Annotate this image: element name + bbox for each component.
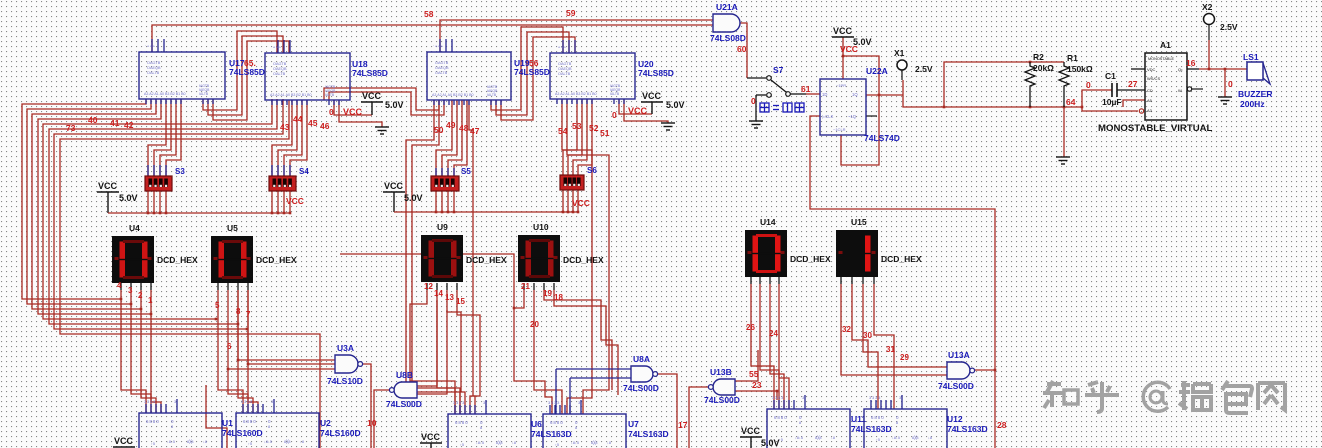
svg-text:U10: U10 xyxy=(533,222,549,232)
U8A output xyxy=(656,374,677,448)
svg-text:29: 29 xyxy=(900,353,909,362)
svg-text:↑5: ↑5 xyxy=(555,443,559,447)
svg-text:↑5: ↑5 xyxy=(460,443,464,447)
svg-text:0: 0 xyxy=(612,110,617,120)
svg-text:1Q: 1Q xyxy=(852,92,858,97)
svg-text:VCC: VCC xyxy=(840,44,858,54)
svg-text:DCD_HEX: DCD_HEX xyxy=(256,255,297,265)
svg-text:U15: U15 xyxy=(851,217,867,227)
svg-text:150kΩ: 150kΩ xyxy=(1067,64,1093,74)
svg-text:42: 42 xyxy=(124,120,134,130)
svg-text:VCC: VCC xyxy=(833,26,853,36)
svg-text:74LS00D: 74LS00D xyxy=(386,399,422,409)
svg-text:8: 8 xyxy=(236,307,241,316)
probe X1 xyxy=(897,60,907,70)
svg-text:VCC: VCC xyxy=(572,198,590,208)
VCC symbol near U20 xyxy=(641,91,685,110)
U13A output xyxy=(973,369,995,371)
svg-text:· ▵ ▵ ▵: · ▵ ▵ ▵ xyxy=(271,44,281,49)
resistor R1 150k xyxy=(1059,62,1069,107)
svg-text:28: 28 xyxy=(997,420,1007,430)
svg-text:74LS163D: 74LS163D xyxy=(531,429,572,439)
svg-text:MONOSTABLE: MONOSTABLE xyxy=(1148,57,1175,61)
svg-text:LS1: LS1 xyxy=(1243,52,1259,62)
svg-text:WS/CS: WS/CS xyxy=(1147,76,1160,81)
wire VCC to S5/S6 xyxy=(393,192,395,212)
svg-text:8╳8: 8╳8 xyxy=(591,440,598,445)
svg-text:17: 17 xyxy=(678,420,688,430)
svg-text:S5: S5 xyxy=(461,167,471,176)
counter U2 xyxy=(236,413,319,448)
svg-text:VCC: VCC xyxy=(741,426,761,436)
svg-text:58: 58 xyxy=(424,9,434,19)
svg-text:↓8: ↓8 xyxy=(203,440,207,444)
cross-section wires near U10 xyxy=(340,254,552,414)
DIP switch S5 xyxy=(431,176,459,191)
svg-text:18: 18 xyxy=(554,293,563,302)
svg-text:19: 19 xyxy=(543,289,552,298)
wire 58 (U19 to U21A upper input) xyxy=(440,20,713,52)
U18 VCC net wires xyxy=(334,100,372,115)
svg-text:BUZZER: BUZZER xyxy=(1238,89,1272,99)
VCC bottom mid xyxy=(420,432,442,443)
display U9 DCD_HEX xyxy=(421,235,463,282)
svg-text:A3: A3 xyxy=(1147,108,1153,113)
CLK wire from U22A to U13A column xyxy=(810,116,995,448)
svg-text:2: 2 xyxy=(138,291,143,300)
svg-text:↓8↓5: ↓8↓5 xyxy=(892,436,900,440)
svg-text:A3 A2 A1 A0 B3 B2 B1 B0: A3 A2 A1 A0 B3 B2 B1 B0 xyxy=(432,93,474,97)
U22A PR/CLR loop xyxy=(841,56,879,165)
display pin columns U9 to U6 xyxy=(410,290,455,414)
svg-text:U3A: U3A xyxy=(337,343,354,353)
svg-text:74LS00D: 74LS00D xyxy=(623,383,659,393)
U3A input wires from U5 columns xyxy=(238,290,335,360)
svg-text:53: 53 xyxy=(572,121,582,131)
monostable A1 xyxy=(1145,53,1187,120)
svg-text:↓8: ↓8 xyxy=(607,441,611,445)
svg-text:24: 24 xyxy=(769,329,778,338)
svg-text:8╳8: 8╳8 xyxy=(496,440,503,445)
comparator U17 74LS85D xyxy=(139,52,225,99)
svg-text:5.0V: 5.0V xyxy=(404,193,423,203)
svg-text:IALTB: IALTB xyxy=(487,93,497,97)
VCC symbol near U18 xyxy=(361,91,404,110)
svg-text:VDC: VDC xyxy=(1147,67,1156,72)
NAND gate U8A 74LS00D xyxy=(631,366,653,382)
svg-text:DCD_HEX: DCD_HEX xyxy=(157,255,198,265)
svg-text:U5: U5 xyxy=(227,223,238,233)
counter U6 xyxy=(448,414,531,448)
svg-text:X2: X2 xyxy=(1202,2,1213,12)
svg-text:43: 43 xyxy=(280,122,290,132)
svg-text:U9: U9 xyxy=(437,222,448,232)
svg-text:4: 4 xyxy=(117,281,122,290)
svg-text:U8B: U8B xyxy=(396,370,413,380)
comparator U19 74LS85D xyxy=(427,52,511,100)
ground near U20 xyxy=(661,123,675,130)
svg-text:45: 45 xyxy=(308,118,318,128)
svg-text:12: 12 xyxy=(424,282,433,291)
svg-text:↓8: ↓8 xyxy=(928,436,932,440)
svg-text:A5: A5 xyxy=(1147,98,1153,103)
svg-text:VCC: VCC xyxy=(421,432,441,442)
counter U12 xyxy=(864,409,947,448)
A1 output Q wire 16 xyxy=(1187,68,1199,70)
svg-text:VCC: VCC xyxy=(286,196,304,206)
cascade wires U18 to U19 xyxy=(324,88,439,110)
svg-text:↑5: ↑5 xyxy=(876,438,880,442)
svg-text:U1: U1 xyxy=(222,418,233,428)
svg-text:48: 48 xyxy=(459,123,469,133)
comparator U18 74LS85D xyxy=(265,53,350,100)
X2 stem xyxy=(1208,24,1210,40)
svg-text:0: 0 xyxy=(751,96,756,106)
svg-text:OAGTB: OAGTB xyxy=(435,61,449,65)
svg-text:200Hz: 200Hz xyxy=(1240,99,1265,109)
svg-text:3 3 3 3: 3 3 3 3 xyxy=(869,395,881,400)
U22A VCC wire xyxy=(842,37,844,79)
counter U1 xyxy=(139,413,222,448)
svg-text:5.0V: 5.0V xyxy=(666,100,685,110)
wires U18 B pins to S4 xyxy=(272,100,292,176)
svg-text:VCC: VCC xyxy=(114,436,134,446)
wires U19 pins to S5 xyxy=(436,100,452,176)
VCC for U22A xyxy=(832,26,872,47)
U8B wires xyxy=(374,390,391,448)
cascade wires U17 to U18 xyxy=(203,31,277,110)
NAND gate U13B 74LS00D xyxy=(713,379,735,395)
svg-text:40: 40 xyxy=(88,115,98,125)
svg-text:↓8: ↓8 xyxy=(512,441,516,445)
R1 to ground xyxy=(1063,107,1065,157)
svg-text:5.0V: 5.0V xyxy=(761,438,780,448)
svg-text:↓8: ↓8 xyxy=(300,440,304,444)
svg-text:5.0V: 5.0V xyxy=(385,100,404,110)
svg-text:64: 64 xyxy=(1066,97,1076,107)
svg-text:3 3 3 3: 3 3 3 3 xyxy=(144,399,156,404)
svg-text:74LS74D: 74LS74D xyxy=(864,133,900,143)
svg-text:R1: R1 xyxy=(1067,53,1078,63)
svg-text:55: 55 xyxy=(749,369,759,379)
wire 60 (U21A output down to S7) xyxy=(740,23,747,78)
U3A output wire 10 xyxy=(361,364,371,448)
svg-text:8╳8: 8╳8 xyxy=(284,439,291,444)
svg-text:~1Q: ~1Q xyxy=(848,114,857,119)
left wire bundle: U17/U18 pins to display/counter bus xyxy=(22,99,146,299)
svg-text:21: 21 xyxy=(521,282,530,291)
svg-text:16: 16 xyxy=(1186,58,1196,68)
svg-text:VCC: VCC xyxy=(343,107,363,117)
label key=space xyxy=(760,103,804,112)
svg-text:· ▵ ▵ ▵: · ▵ ▵ ▵ xyxy=(145,43,155,48)
node 64 wire xyxy=(903,95,1082,107)
svg-text:· ▵ ▵ ▵: · ▵ ▵ ▵ xyxy=(433,43,443,48)
svg-text:↑5: ↑5 xyxy=(779,438,783,442)
svg-text:DCD_HEX: DCD_HEX xyxy=(563,255,604,265)
svg-text:5.0V: 5.0V xyxy=(119,193,138,203)
svg-text:CD: CD xyxy=(1147,88,1153,93)
C1 wires xyxy=(1082,90,1112,107)
svg-text:W: W xyxy=(1178,88,1182,93)
svg-text:50: 50 xyxy=(434,125,444,135)
svg-text:47: 47 xyxy=(470,126,480,136)
svg-text:VCC: VCC xyxy=(384,181,404,191)
svg-text:74LS85D: 74LS85D xyxy=(229,67,265,77)
svg-text:~1CLR: ~1CLR xyxy=(833,127,846,132)
svg-text:20kΩ: 20kΩ xyxy=(1033,63,1054,73)
svg-text:OALTB: OALTB xyxy=(273,72,286,76)
svg-text:R2: R2 xyxy=(1033,52,1044,62)
svg-text:49: 49 xyxy=(446,120,456,130)
svg-text:~1PR: ~1PR xyxy=(836,83,846,88)
svg-text:27: 27 xyxy=(1128,79,1138,89)
svg-text:X1: X1 xyxy=(894,48,905,58)
svg-text:41: 41 xyxy=(110,118,120,128)
resistor R2 20k xyxy=(1025,62,1035,107)
display pin stubs xyxy=(120,283,122,290)
svg-text:52: 52 xyxy=(589,123,599,133)
DIP switch S6 xyxy=(560,175,584,190)
VCC symbol (S3 area) xyxy=(97,181,138,203)
svg-text:74LS163D: 74LS163D xyxy=(851,424,892,434)
svg-text:A1: A1 xyxy=(1160,40,1171,50)
ground under S7 xyxy=(749,121,763,128)
X1 stem xyxy=(901,70,903,80)
wires U20 pins to S6 xyxy=(563,99,577,175)
svg-text:IALTB: IALTB xyxy=(610,92,620,96)
svg-text:DCD_HEX: DCD_HEX xyxy=(881,254,922,264)
svg-text:74LS163D: 74LS163D xyxy=(628,429,669,439)
svg-text:6 8 8 0: 6 8 8 0 xyxy=(146,419,159,424)
svg-text:U7: U7 xyxy=(628,419,639,429)
svg-text:A3 A2 A1 A0 B3 B2 B1 B0: A3 A2 A1 A0 B3 B2 B1 B0 xyxy=(270,93,312,97)
wire VCC to S3/S4 xyxy=(107,192,109,213)
display pin columns U14 to U11 xyxy=(751,284,774,409)
svg-text:74LS85D: 74LS85D xyxy=(638,68,674,78)
svg-text:3 3 3 3: 3 3 3 3 xyxy=(772,395,784,400)
svg-text:↓8↓5: ↓8↓5 xyxy=(264,440,272,444)
svg-text:S4: S4 xyxy=(299,167,309,176)
svg-text:74LS160D: 74LS160D xyxy=(320,428,361,438)
NAND gate U8B 74LS00D xyxy=(394,382,417,398)
svg-text:S3: S3 xyxy=(175,167,185,176)
svg-text:30: 30 xyxy=(863,331,872,340)
svg-text:7: 7 xyxy=(246,310,251,319)
display pin columns U5 to U2 xyxy=(218,290,243,413)
svg-text:54: 54 xyxy=(558,126,568,136)
svg-text:U14: U14 xyxy=(760,217,776,227)
watermark zhihu xyxy=(1043,381,1285,413)
wires U17 B pins to S3 xyxy=(148,99,166,176)
display U14 DCD_HEX xyxy=(745,230,787,277)
U22A output to X1 xyxy=(866,94,903,96)
display U10 DCD_HEX xyxy=(518,235,560,282)
svg-text:3: 3 xyxy=(128,286,133,295)
U18 ground wire xyxy=(339,100,382,127)
LS1 to ground xyxy=(1224,69,1226,97)
svg-text:6 8 8 0: 6 8 8 0 xyxy=(871,415,884,420)
svg-text:6 8 8 0: 6 8 8 0 xyxy=(243,419,256,424)
svg-text:Q•: Q• xyxy=(1178,67,1183,72)
NAND gate U3A 74LS10D xyxy=(335,355,358,373)
svg-text:74LS85D: 74LS85D xyxy=(514,67,550,77)
svg-text:8╳8: 8╳8 xyxy=(815,435,822,440)
VCC symbol (S5 area) xyxy=(383,181,423,203)
display pin columns U15 to U13A/U12 xyxy=(841,284,947,375)
svg-text:20: 20 xyxy=(530,320,539,329)
svg-text:74LS00D: 74LS00D xyxy=(704,395,740,405)
svg-text:46: 46 xyxy=(320,121,330,131)
svg-text:U8A: U8A xyxy=(633,354,650,364)
svg-text:VCC: VCC xyxy=(642,91,662,101)
display U5 DCD_HEX xyxy=(211,236,253,283)
svg-text:1: 1 xyxy=(148,296,153,305)
svg-text:U21A: U21A xyxy=(716,2,738,12)
svg-text:S7: S7 xyxy=(773,65,784,75)
probe X2 xyxy=(1204,14,1215,25)
svg-text:74LS00D: 74LS00D xyxy=(938,381,974,391)
svg-text:1D: 1D xyxy=(822,92,827,97)
DIP switch S4 xyxy=(269,176,296,191)
svg-text:A3 A2 A1 A0 B3 B2 B1 B0: A3 A2 A1 A0 B3 B2 B1 B0 xyxy=(555,92,597,96)
svg-text:OAGTB: OAGTB xyxy=(147,61,161,65)
svg-text:U22A: U22A xyxy=(866,66,888,76)
svg-text:IALTB: IALTB xyxy=(325,93,335,97)
AND gate U21A 74LS08D xyxy=(713,14,740,32)
U20 ground wire xyxy=(624,99,668,123)
svg-text:A3 A2 A1 A0 B3 B2 B1 B0: A3 A2 A1 A0 B3 B2 B1 B0 xyxy=(144,92,186,96)
svg-text:44: 44 xyxy=(293,114,303,124)
svg-text:OALTB: OALTB xyxy=(435,71,448,75)
svg-text:3 3 3 3: 3 3 3 3 xyxy=(453,400,465,405)
svg-text:26: 26 xyxy=(746,323,755,332)
svg-text:31: 31 xyxy=(886,345,895,354)
svg-text:U6: U6 xyxy=(531,419,542,429)
counter U7 xyxy=(543,414,626,448)
svg-text:OALTB: OALTB xyxy=(147,71,160,75)
svg-text:23: 23 xyxy=(752,380,762,390)
svg-text:10µF: 10µF xyxy=(1102,97,1122,107)
svg-text:61: 61 xyxy=(801,84,811,94)
svg-text:DCD_HEX: DCD_HEX xyxy=(466,255,507,265)
DIP switch S3 xyxy=(145,176,172,191)
svg-text:↓8↓5: ↓8↓5 xyxy=(476,441,484,445)
svg-text:8╳8: 8╳8 xyxy=(187,439,194,444)
svg-text:74LS10D: 74LS10D xyxy=(327,376,363,386)
svg-text:6 8 8 0: 6 8 8 0 xyxy=(774,415,787,420)
display U15 DCD_HEX xyxy=(836,230,878,277)
bus wire to lower section xyxy=(60,100,320,448)
svg-text:74LS163D: 74LS163D xyxy=(947,424,988,434)
svg-text:60: 60 xyxy=(737,44,747,54)
svg-text:0: 0 xyxy=(1228,79,1233,89)
svg-text:DCD_HEX: DCD_HEX xyxy=(790,254,831,264)
svg-text:6 8 8 0: 6 8 8 0 xyxy=(455,420,468,425)
svg-text:8╳8: 8╳8 xyxy=(912,435,919,440)
svg-text:U13A: U13A xyxy=(948,350,970,360)
svg-text:IALTB: IALTB xyxy=(199,92,209,96)
svg-text:3 3 3 3: 3 3 3 3 xyxy=(548,400,560,405)
svg-text:3 3 3 3: 3 3 3 3 xyxy=(241,399,253,404)
svg-text:6 8 8 0: 6 8 8 0 xyxy=(550,420,563,425)
svg-text:OALTB: OALTB xyxy=(558,72,571,76)
svg-text:OAEQB: OAEQB xyxy=(435,66,449,70)
svg-text:10: 10 xyxy=(367,418,377,428)
svg-text:VCC: VCC xyxy=(98,181,118,191)
svg-text:· ▵ ▵ ▵: · ▵ ▵ ▵ xyxy=(556,44,566,49)
comparator U20 74LS85D xyxy=(550,53,635,99)
svg-text:32: 32 xyxy=(842,325,851,334)
U13B wires xyxy=(689,387,710,448)
svg-text:OAGTB: OAGTB xyxy=(273,62,287,66)
long bypass verticals around U9 xyxy=(406,100,455,414)
S7 wires xyxy=(747,77,766,79)
svg-text:OAEQB: OAEQB xyxy=(147,66,161,70)
svg-text:↓8↓5: ↓8↓5 xyxy=(795,436,803,440)
ground near U18 xyxy=(375,127,389,134)
svg-text:VCC: VCC xyxy=(628,106,648,116)
svg-text:MONOSTABLE_VIRTUAL: MONOSTABLE_VIRTUAL xyxy=(1098,123,1213,134)
svg-text:73: 73 xyxy=(66,123,76,133)
svg-text:2.5V: 2.5V xyxy=(1220,22,1238,32)
VCC bottom left xyxy=(113,436,135,447)
flip-flop U22A 74LS74D xyxy=(820,79,866,135)
svg-text:▷CLK: ▷CLK xyxy=(822,114,834,119)
svg-text:↓8: ↓8 xyxy=(831,436,835,440)
svg-text:2.5V: 2.5V xyxy=(915,64,933,74)
svg-text:6: 6 xyxy=(227,342,232,351)
svg-text:S6: S6 xyxy=(587,166,597,175)
svg-text:74LS08D: 74LS08D xyxy=(710,33,746,43)
display pin columns U4 to U1 xyxy=(121,290,146,413)
U20 VCC net wires xyxy=(619,99,652,114)
svg-text:14: 14 xyxy=(434,289,443,298)
svg-text:OAEQB: OAEQB xyxy=(273,67,287,71)
svg-text:↑5: ↑5 xyxy=(248,442,252,446)
svg-text:59: 59 xyxy=(566,8,576,18)
svg-text:↓8↓5: ↓8↓5 xyxy=(571,441,579,445)
svg-text:C1: C1 xyxy=(1105,71,1116,81)
cascade wires U19 to U20 xyxy=(491,27,563,110)
U8A input wires xyxy=(556,368,631,370)
svg-text:↓8↓5: ↓8↓5 xyxy=(167,440,175,444)
VCC bottom right xyxy=(740,426,780,448)
svg-text:U2: U2 xyxy=(320,418,331,428)
svg-text:U13B: U13B xyxy=(710,367,732,377)
wire 59 (U17 to U21A lower input) xyxy=(152,25,713,52)
svg-text:U12: U12 xyxy=(947,414,963,424)
svg-text:5: 5 xyxy=(215,301,220,310)
svg-text:0: 0 xyxy=(1086,80,1091,90)
counter U11 xyxy=(767,409,850,448)
svg-text:OAEQB: OAEQB xyxy=(558,67,572,71)
NAND gate U13A 74LS00D xyxy=(947,362,970,379)
svg-text:0: 0 xyxy=(329,107,334,117)
U1 clock chain wires xyxy=(206,385,227,448)
svg-text:↑5: ↑5 xyxy=(151,442,155,446)
svg-text:51: 51 xyxy=(600,128,610,138)
svg-text:13: 13 xyxy=(445,293,454,302)
display U4 DCD_HEX xyxy=(112,236,154,283)
svg-text:74LS85D: 74LS85D xyxy=(352,68,388,78)
svg-text:OAGTB: OAGTB xyxy=(558,62,572,66)
svg-text:74LS160D: 74LS160D xyxy=(222,428,263,438)
svg-text:15: 15 xyxy=(456,297,465,306)
svg-text:U4: U4 xyxy=(129,223,140,233)
svg-text:VCC: VCC xyxy=(362,91,382,101)
